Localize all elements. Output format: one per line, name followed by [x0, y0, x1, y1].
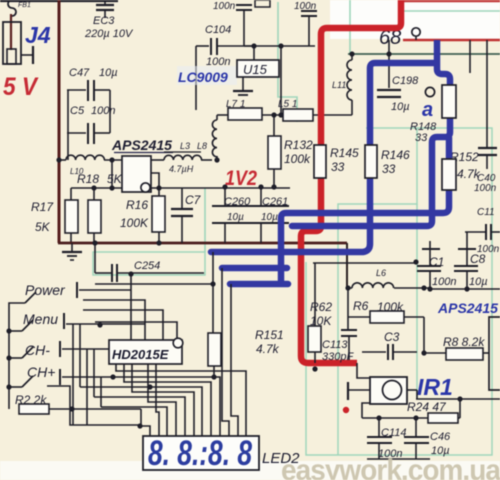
node L10 out: [109, 157, 114, 162]
ground symbol left: [71, 243, 73, 252]
node L6 in: [345, 285, 350, 290]
svg-text:LC9009: LC9009: [178, 69, 228, 85]
node power rail / L10: [56, 157, 61, 162]
svg-text:easywork.com.ua: easywork.com.ua: [281, 454, 500, 480]
resistor R146: [365, 145, 377, 178]
wire net 1V2 left: [71, 187, 290, 189]
IC HD2015E: [109, 340, 182, 364]
dark rail y54: [348, 53, 500, 55]
wire bundle left drop c: [93, 349, 95, 397]
node L3 out: [214, 157, 219, 162]
red dot marker: [343, 407, 349, 413]
node rail a: [251, 43, 256, 48]
svg-text:C113: C113: [322, 339, 348, 351]
svg-text:R18: R18: [77, 172, 99, 186]
label LC9009: [177, 66, 237, 85]
svg-text:CH-: CH-: [25, 342, 50, 358]
node C254 rail: [92, 240, 97, 245]
power rail maroon vertical: [58, 0, 61, 243]
inductor L8 vertical: [216, 156, 218, 160]
node bundle: [147, 384, 152, 389]
svg-text:R8 8.2k: R8 8.2k: [443, 335, 485, 349]
wire C113 to IR: [357, 363, 370, 378]
svg-text:L3: L3: [180, 141, 190, 151]
svg-text:4.7µH: 4.7µH: [169, 164, 194, 174]
node IC out: [156, 185, 161, 190]
teal line in top right box: [403, 10, 500, 12]
wire bundle h3: [124, 364, 211, 436]
wire bundle h6: [94, 397, 185, 436]
capacitor C1: [422, 248, 440, 250]
wire IR right: [407, 389, 417, 391]
svg-text:220µ 10V: 220µ 10V: [84, 28, 134, 40]
svg-text:a: a: [422, 99, 433, 121]
inductor L10: [59, 159, 66, 161]
thick blue stub2: [222, 265, 287, 272]
white paper band bottom: [0, 461, 500, 480]
node L5/L7 junction: [278, 112, 283, 117]
node display in: [137, 423, 142, 428]
svg-text:FB1: FB1: [18, 2, 31, 9]
node h284: [210, 281, 215, 286]
wire bus column s1: [212, 252, 214, 333]
svg-text:APS2415: APS2415: [111, 137, 172, 153]
pin bar J4: [32, 46, 34, 64]
svg-text:5K: 5K: [107, 172, 123, 186]
IR receiver box IR1: [370, 377, 407, 404]
wire top rail: [244, 45, 315, 47]
node rail b: [278, 43, 283, 48]
IC U15 box: [253, 46, 255, 60]
svg-text:4.7k: 4.7k: [256, 342, 280, 356]
resistor R17: [70, 188, 72, 200]
thick blue terminal drop: [437, 40, 450, 85]
capacitor C254: [94, 243, 96, 273]
svg-text:4.7k: 4.7k: [457, 167, 481, 181]
svg-text:R151: R151: [255, 328, 284, 342]
svg-text:330pF: 330pF: [322, 351, 354, 363]
teal net L11: [349, 0, 351, 54]
capacitor C40: [478, 147, 497, 149]
node R8 left: [421, 350, 426, 355]
op-amp U?: APS2415 IC box: [122, 156, 151, 192]
node R132 bottom: [271, 184, 276, 189]
display LED2 box: [143, 436, 259, 470]
wire bundle h7: [148, 364, 176, 436]
thick blue R148-R152 link: [446, 137, 453, 159]
wire C47-C5 left: [67, 90, 69, 160]
wire L10 node down: [111, 160, 113, 188]
svg-text:L8: L8: [197, 141, 207, 151]
node R151 bottom: [211, 374, 216, 379]
svg-text:100n: 100n: [213, 1, 236, 12]
svg-text:5K: 5K: [35, 220, 51, 234]
wire IC out stub: [151, 173, 159, 187]
connector J4: [3, 22, 21, 64]
svg-text:100K: 100K: [120, 216, 149, 230]
teal box C254: [93, 252, 205, 275]
node L11 top: [349, 51, 354, 56]
svg-text:R132: R132: [284, 138, 313, 152]
svg-text:J4: J4: [25, 22, 51, 48]
svg-text:R62: R62: [310, 300, 332, 314]
svg-text:C5: C5: [70, 105, 85, 117]
svg-text:C11: C11: [477, 207, 495, 218]
svg-text:100n: 100n: [474, 183, 497, 194]
svg-text:HD2015E: HD2015E: [112, 347, 169, 362]
svg-text:C7: C7: [185, 193, 202, 207]
switch bus left: [9, 303, 25, 409]
ground U15: [242, 77, 244, 91]
svg-text:C47: C47: [69, 67, 90, 79]
svg-text:U15: U15: [243, 62, 268, 77]
node R132 top: [271, 112, 276, 117]
node teal junction: [413, 259, 418, 264]
wire bottom rail y399: [416, 398, 500, 400]
wire R6 to R8: [424, 317, 446, 353]
wire bundle h8: [101, 407, 167, 436]
resistor R62: [314, 263, 316, 326]
wire mesh vertical b: [72, 324, 74, 425]
node L10/IC branch: [109, 185, 114, 190]
svg-text:C254: C254: [134, 260, 160, 272]
node rail C8: [464, 286, 469, 291]
svg-text:C198: C198: [392, 75, 419, 87]
svg-text:C104: C104: [205, 24, 231, 36]
svg-text:Power: Power: [25, 282, 66, 298]
teal box right block inner: [338, 128, 417, 455]
wire C47-C5 right: [109, 90, 111, 133]
node R2 out: [69, 406, 74, 411]
teal box right block outer: [306, 128, 492, 455]
wire bundle h1: [116, 364, 246, 436]
svg-text:100n: 100n: [477, 244, 500, 255]
node C254/pin column: [128, 271, 133, 276]
wire drops from red line: [469, 40, 471, 73]
svg-text:R17: R17: [31, 200, 54, 214]
teal net top middle: [278, 2, 297, 122]
wire C1 top lead: [429, 241, 431, 249]
thick blue stub3: [230, 281, 288, 288]
wire bundle h9: [156, 364, 159, 436]
capacitor C8: [458, 248, 476, 250]
resistor R152: [442, 159, 456, 190]
svg-text:10µ: 10µ: [391, 101, 410, 113]
terminal circle a: [425, 87, 434, 96]
svg-text:R145: R145: [330, 146, 359, 160]
ground rail maroon horizontal: [58, 242, 347, 245]
node C261: [258, 184, 263, 189]
svg-text:IR1: IR1: [417, 374, 453, 400]
svg-text:10µ: 10µ: [261, 212, 278, 223]
thick blue R152 to bus H1: [281, 190, 449, 281]
thick blue bus1: [211, 178, 370, 252]
node red rail: [312, 366, 317, 371]
wire y418: [362, 417, 428, 419]
svg-text:APS2415: APS2415: [437, 300, 498, 316]
svg-text:33: 33: [415, 132, 428, 144]
teal line IR right edge: [416, 204, 418, 399]
svg-text:R146: R146: [381, 148, 410, 162]
teal net 1V2 to C254: [204, 188, 206, 252]
wire R2 to display: [141, 409, 150, 436]
wire bus column s3: [231, 284, 238, 436]
node R24 top: [457, 396, 462, 401]
IC box right partial: [489, 317, 500, 390]
red net line right: [403, 39, 500, 42]
svg-text:R24 47: R24 47: [407, 400, 447, 414]
wire bundle h4: [80, 387, 202, 436]
wire bus column s2: [222, 268, 229, 436]
wire bundle h5: [132, 364, 194, 436]
wire mesh h300: [83, 300, 145, 340]
svg-text:C46: C46: [430, 431, 451, 443]
wire bundle left drop d: [100, 377, 102, 407]
node rail C1: [427, 286, 432, 291]
wire mesh h310: [83, 310, 163, 340]
white box top right: [330, 0, 500, 39]
wire FB1 to J4: [10, 14, 12, 50]
node y54: [386, 51, 391, 56]
wire rail corner down: [346, 243, 348, 288]
wire C198 drop: [388, 40, 390, 88]
resistor R18: [93, 188, 95, 200]
wire pin column c254: [130, 274, 132, 340]
svg-text:C3: C3: [384, 330, 400, 344]
wire bundle h2 CH+ row: [62, 377, 220, 436]
node C114: [376, 415, 381, 420]
wire cap ground bar: [367, 458, 430, 460]
node rail L6 mid: [421, 285, 426, 290]
node C260: [222, 184, 227, 189]
svg-text:100n: 100n: [91, 105, 115, 117]
wire mesh h284: [95, 283, 213, 285]
top border wire: [0, 0, 118, 2]
svg-text:8. 8.:8. 8: 8. 8.:8. 8: [148, 434, 252, 473]
wire L6 rail right: [430, 288, 500, 290]
resistor R148: [442, 85, 456, 118]
svg-text:10µ: 10µ: [99, 67, 118, 79]
svg-text:33: 33: [382, 162, 396, 176]
terminal circle top: [412, 28, 420, 36]
svg-text:L11: L11: [332, 80, 346, 90]
wire CH mesh vertical a: [47, 386, 140, 425]
thick blue R148 to bus2: [292, 118, 450, 226]
node R18 top: [91, 185, 96, 190]
thick blue vertical R146 top: [370, 63, 437, 145]
svg-text:1V2: 1V2: [225, 167, 257, 190]
wire rail to L5/L7: [280, 46, 282, 115]
capacitor EC3: [104, 0, 106, 5]
box fragment top edge: [255, 0, 270, 7]
wire mesh vertical c: [86, 349, 88, 425]
fuse FB1: [8, 0, 16, 16]
thick red highlighted net: [321, 0, 401, 145]
resistor R145: [314, 145, 326, 178]
wire R62 top rail: [313, 262, 416, 264]
svg-text:EC3: EC3: [93, 15, 115, 27]
svg-text:100n: 100n: [432, 276, 456, 288]
wire IR bottom: [362, 403, 370, 418]
wire J4 pin: [21, 54, 33, 56]
wire drop C40: [486, 40, 488, 148]
red border top: [400, 0, 500, 2]
svg-text:R16: R16: [126, 198, 148, 212]
node CH+ branch: [110, 374, 115, 379]
svg-text:100k: 100k: [284, 152, 311, 166]
wire C104 left branch: [195, 46, 197, 110]
wire bundle left drop b: [79, 324, 81, 387]
node R16 bottom: [156, 240, 161, 245]
IR sensor contact: [347, 382, 349, 400]
svg-text:5 V: 5 V: [3, 73, 39, 101]
node C46: [413, 415, 418, 420]
svg-text:L6: L6: [376, 268, 386, 278]
svg-text:R6: R6: [353, 299, 369, 313]
node menu branch: [97, 322, 102, 327]
svg-text:10µ: 10µ: [469, 276, 488, 288]
wire C8 top lead: [466, 232, 468, 249]
wire column to circle: [95, 322, 177, 339]
svg-text:33: 33: [331, 160, 345, 174]
svg-text:10µ: 10µ: [227, 212, 244, 223]
